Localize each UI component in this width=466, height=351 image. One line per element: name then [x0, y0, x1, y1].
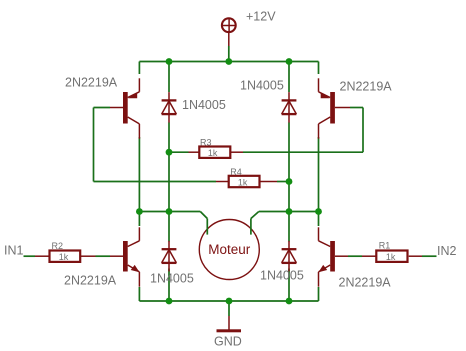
svg-text:1k: 1k	[386, 252, 396, 262]
svg-text:1N4005: 1N4005	[150, 272, 194, 286]
svg-text:1N4005: 1N4005	[240, 78, 284, 92]
svg-text:1N4005: 1N4005	[260, 269, 304, 283]
svg-text:+12V: +12V	[246, 10, 276, 24]
svg-text:1k: 1k	[238, 177, 248, 187]
svg-text:1N4005: 1N4005	[182, 98, 226, 112]
svg-text:IN1: IN1	[4, 244, 24, 258]
svg-text:1k: 1k	[208, 148, 218, 158]
svg-text:R4: R4	[230, 167, 242, 177]
svg-text:1k: 1k	[59, 252, 69, 262]
svg-text:Moteur: Moteur	[208, 242, 251, 257]
svg-text:IN2: IN2	[437, 244, 457, 258]
svg-text:GND: GND	[214, 335, 242, 349]
svg-text:2N2219A: 2N2219A	[64, 273, 117, 287]
svg-text:2N2219A: 2N2219A	[65, 75, 118, 89]
svg-text:R2: R2	[52, 241, 64, 251]
svg-text:2N2219A: 2N2219A	[339, 276, 392, 290]
svg-text:R3: R3	[200, 137, 212, 147]
svg-text:R1: R1	[379, 241, 391, 251]
svg-text:2N2219A: 2N2219A	[340, 79, 393, 93]
